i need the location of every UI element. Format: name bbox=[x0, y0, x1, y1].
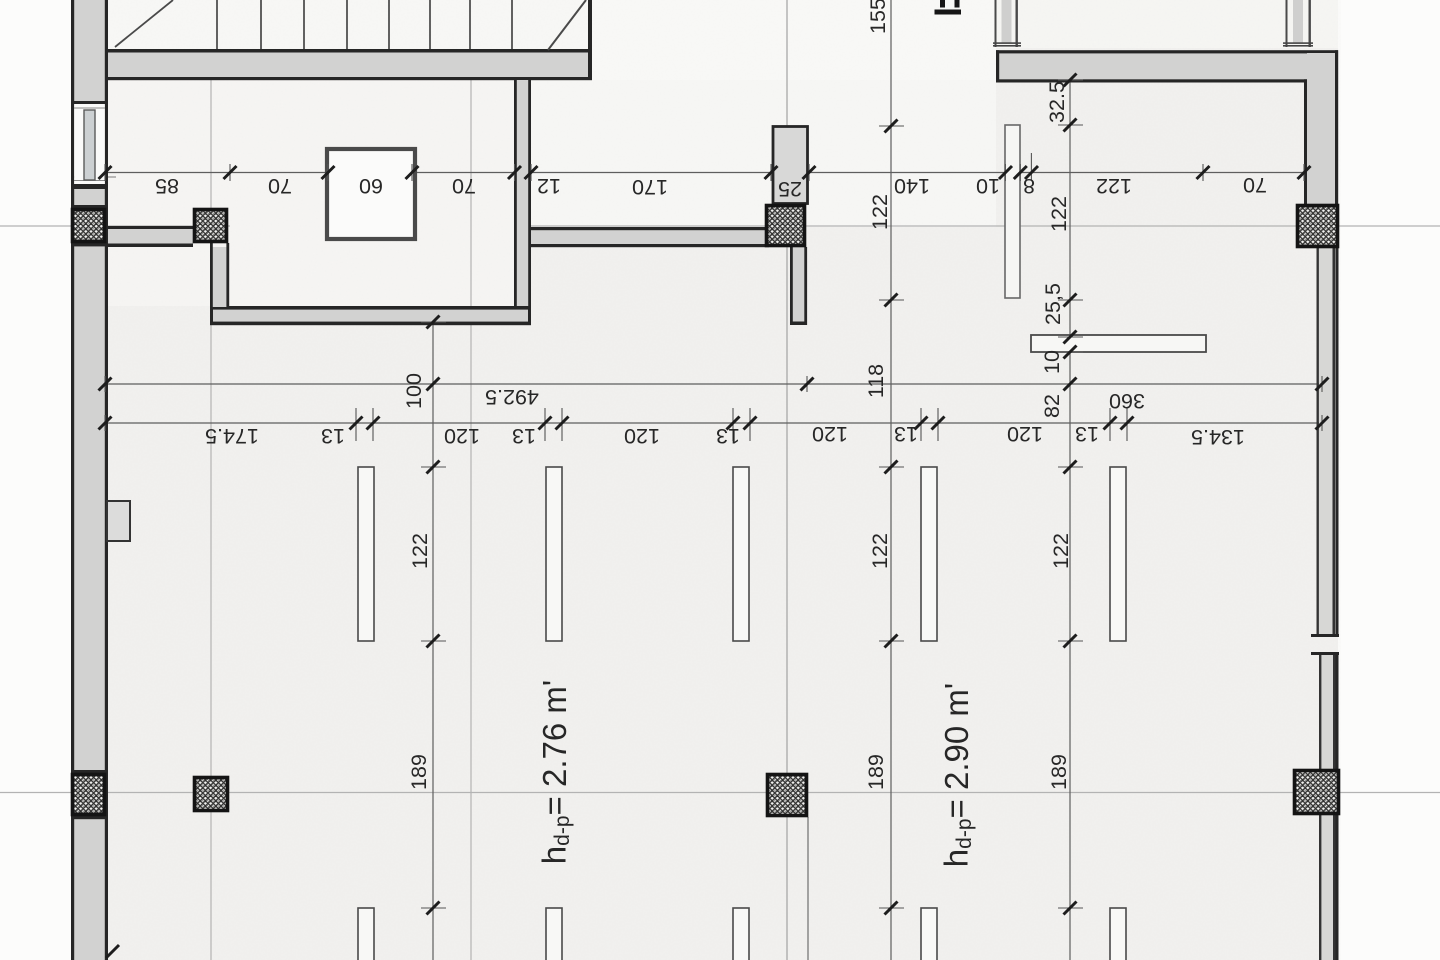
stair bottom wall bbox=[106, 0, 592, 80]
dim line L1 y=172.5 bbox=[99, 172, 1304, 174]
grid line vertical x=808 lower bbox=[807, 817, 809, 960]
hatched column K6 bbox=[195, 778, 228, 811]
left exterior wall bbox=[71, 0, 108, 960]
ceiling beams row 1 bbox=[358, 467, 1126, 641]
svg-text:122: 122 bbox=[408, 533, 432, 569]
svg-text:122: 122 bbox=[868, 194, 892, 230]
hatched column K3 bbox=[767, 206, 805, 246]
svg-text:189: 189 bbox=[1047, 754, 1071, 790]
svg-text:13: 13 bbox=[321, 424, 345, 448]
svg-text:13: 13 bbox=[1075, 422, 1099, 446]
grid line vertical x=211 bbox=[210, 80, 212, 960]
svg-text:25,5: 25,5 bbox=[1041, 283, 1065, 325]
svg-text:120: 120 bbox=[1007, 422, 1043, 446]
svg-text:10: 10 bbox=[976, 174, 1000, 198]
svg-text:70: 70 bbox=[1243, 173, 1267, 197]
windowsill extension line left bbox=[71, 176, 116, 178]
svg-text:25: 25 bbox=[778, 177, 802, 201]
dim line L3 y=423 bbox=[100, 422, 1322, 424]
dim line L2 y=384 bbox=[100, 383, 1322, 385]
partial rotated m' at top bbox=[935, 0, 962, 15]
interior vertical wall A x=514..531 bbox=[514, 80, 531, 309]
right exterior wall H bbox=[1304, 50, 1338, 204]
svg-text:10: 10 bbox=[1040, 350, 1064, 374]
svg-text:12: 12 bbox=[537, 174, 561, 198]
svg-text:120: 120 bbox=[624, 424, 660, 448]
stray tick bottom left bbox=[106, 945, 119, 958]
left window bbox=[74, 104, 105, 184]
grid line horizontal y=792 bbox=[0, 792, 1440, 794]
hatched column K4 right wall top bbox=[1298, 206, 1338, 247]
svg-text:360: 360 bbox=[1109, 389, 1145, 413]
small duct rect on left wall bbox=[107, 501, 130, 541]
svg-text:118: 118 bbox=[864, 364, 888, 398]
vertical wall C x=210..229 bbox=[210, 243, 229, 309]
grid line vertical x=471 bbox=[470, 80, 472, 960]
stair diagonal cut lines bbox=[115, 0, 173, 47]
hatched column K5 left wall bottom bbox=[73, 775, 105, 815]
svg-text:155: 155 bbox=[866, 0, 890, 34]
svg-text:174.5: 174.5 bbox=[205, 424, 259, 448]
dim chain V2 x=891 bbox=[890, 0, 892, 960]
staircase treads bbox=[217, 0, 512, 49]
ceiling beams row 2 (cut at bottom) bbox=[358, 908, 1126, 960]
svg-text:189: 189 bbox=[407, 754, 431, 790]
top right wall G bbox=[996, 50, 1338, 82]
grid line horizontal y=226 bbox=[0, 225, 230, 227]
svg-text:70: 70 bbox=[452, 174, 476, 198]
dim chain V1 x=433 bbox=[432, 310, 434, 960]
wall E below column3 bbox=[790, 247, 807, 325]
svg-text:122: 122 bbox=[1096, 174, 1132, 198]
svg-text:120: 120 bbox=[444, 424, 480, 448]
svg-text:100: 100 bbox=[402, 373, 426, 409]
horizontal ceiling beam bbox=[1031, 335, 1206, 352]
svg-text:85: 85 bbox=[155, 174, 179, 198]
svg-text:70: 70 bbox=[268, 174, 292, 198]
svg-text:8: 8 bbox=[1023, 174, 1035, 198]
svg-text:122: 122 bbox=[1047, 196, 1071, 232]
room bottom wall B bbox=[210, 306, 531, 325]
svg-text:82: 82 bbox=[1040, 394, 1064, 418]
top window W2 bbox=[1283, 0, 1313, 47]
svg-text:492.5: 492.5 bbox=[485, 385, 539, 409]
partition rect x=1005..1020 bbox=[1005, 125, 1020, 298]
right window strip bbox=[1311, 204, 1339, 960]
svg-text:13: 13 bbox=[716, 424, 740, 448]
hatched column K8 right wall bottom bbox=[1295, 771, 1339, 814]
svg-text:189: 189 bbox=[864, 754, 888, 790]
hatched column K2 bbox=[195, 210, 227, 242]
svg-text:170: 170 bbox=[632, 175, 668, 199]
60 square opening bbox=[327, 149, 415, 239]
svg-text:134.5: 134.5 bbox=[1191, 425, 1245, 449]
hatched column K7 bbox=[768, 775, 807, 816]
svg-text:32.5: 32.5 bbox=[1045, 81, 1069, 123]
wall D2 from wall A to column3 bbox=[531, 227, 769, 247]
svg-text:13: 13 bbox=[512, 424, 536, 448]
dim chain V3 x=1070 bbox=[1069, 80, 1071, 960]
grid line vertical x=787 bbox=[786, 0, 788, 960]
hatched column K1 left wall top bbox=[73, 210, 105, 242]
element F (25) above column3 bbox=[773, 127, 808, 204]
top window W1 bbox=[993, 0, 1021, 47]
svg-text:60: 60 bbox=[359, 174, 383, 198]
svg-text:122: 122 bbox=[868, 533, 892, 569]
svg-text:122: 122 bbox=[1049, 533, 1073, 569]
svg-text:13: 13 bbox=[894, 422, 918, 446]
wall D1 between columns bbox=[106, 226, 193, 247]
svg-text:140: 140 bbox=[894, 174, 930, 198]
svg-text:120: 120 bbox=[812, 422, 848, 446]
